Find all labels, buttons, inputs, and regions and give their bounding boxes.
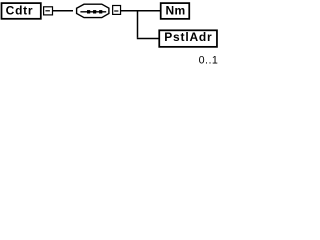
svg-text:Nm: Nm	[165, 4, 185, 18]
svg-text:Cdtr: Cdtr	[6, 4, 34, 18]
svg-text:0..1: 0..1	[199, 55, 219, 67]
svg-text:PstlAdr: PstlAdr	[164, 30, 212, 44]
